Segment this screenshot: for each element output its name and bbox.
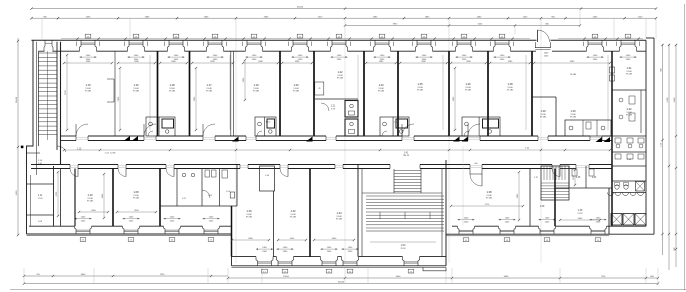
svg-text:13.08: 13.08 [293, 88, 299, 90]
stairwell west wall [357, 165, 359, 257]
svg-text:1.45: 1.45 [246, 209, 252, 213]
landing bump [423, 267, 446, 270]
small rooms above WC [568, 166, 570, 188]
svg-text:1.19: 1.19 [253, 83, 259, 87]
svg-text:1.41: 1.41 [404, 152, 409, 154]
svg-text:97.085: 97.085 [626, 115, 633, 117]
svg-text:97.085: 97.085 [133, 198, 140, 200]
svg-text:13.08: 13.08 [570, 114, 576, 116]
svg-text:97.085: 97.085 [293, 91, 300, 93]
window top x176 [168, 40, 170, 51]
window top x595 [587, 40, 589, 51]
stair door arc [57, 146, 66, 152]
in-room dim lines top row [64, 62, 112, 64]
secondary stair [541, 166, 569, 200]
svg-text:1.21: 1.21 [331, 106, 336, 108]
svg-text:1.30: 1.30 [570, 109, 576, 113]
svg-text:10410: 10410 [16, 96, 18, 103]
left dimension verticals [17, 38, 19, 235]
small pods near corridor top row [146, 117, 175, 136]
svg-text:44540: 44540 [297, 7, 304, 9]
svg-text:97.085: 97.085 [626, 74, 633, 76]
svg-text:97.085: 97.085 [253, 91, 260, 93]
window bottom-middle x285 [277, 257, 279, 266]
svg-text:49: 49 [319, 88, 321, 90]
svg-text:1.23: 1.23 [378, 83, 384, 87]
bottom wall middle section [232, 256, 257, 258]
window bottom-right x507 [499, 226, 501, 234]
niches on x612 wall [610, 67, 615, 73]
bottom wall left section [29, 225, 75, 227]
svg-text:13.08: 13.08 [246, 214, 252, 216]
svg-text:97.085: 97.085 [486, 198, 493, 200]
right column wall x612 [611, 51, 613, 226]
frame line bottom [10, 289, 686, 291]
svg-text:97.085: 97.085 [336, 219, 343, 221]
svg-text:97.085: 97.085 [85, 91, 92, 93]
svg-text:13.08: 13.08 [87, 198, 93, 200]
svg-text:97.085: 97.085 [465, 90, 472, 92]
tower window [44, 40, 45, 51]
svg-text:97.085: 97.085 [378, 91, 385, 93]
right column pods [612, 89, 646, 91]
window top x254 [246, 40, 248, 51]
svg-text:1.43: 1.43 [336, 211, 342, 215]
top row partition walls [157, 51, 159, 136]
svg-text:1.36: 1.36 [578, 209, 583, 212]
svg-text:13.08: 13.08 [336, 216, 342, 218]
svg-text:97.085: 97.085 [246, 217, 253, 219]
window top x382 [374, 40, 376, 51]
corridor door arcs [76, 124, 88, 136]
door recess room 1.38 [470, 169, 482, 175]
svg-text:1.50: 1.50 [401, 244, 406, 247]
window bottom-right x598 [590, 226, 592, 234]
svg-text:1.16: 1.16 [133, 83, 139, 87]
room 1.29 walls [532, 96, 556, 98]
top dimension line 2 [32, 17, 657, 19]
svg-text:97.085: 97.085 [337, 78, 344, 80]
right rooms partitions [529, 169, 531, 227]
bottom-left pods [160, 205, 237, 207]
top dimension line 1 [32, 8, 657, 10]
svg-text:1.22: 1.22 [337, 70, 343, 74]
pod above corridor right [565, 120, 611, 136]
window bottom-left x131 [123, 226, 125, 234]
vertical guide lines [41, 18, 43, 39]
svg-text:13.08: 13.08 [507, 87, 513, 89]
wide flight [362, 192, 442, 194]
svg-text:13.08: 13.08 [486, 195, 492, 197]
window bottom-right x547 [539, 226, 541, 234]
svg-text:1.12: 1.12 [77, 149, 82, 151]
svg-text:1.13 12.96: 1.13 12.96 [105, 153, 117, 155]
svg-text:13.08: 13.08 [378, 88, 384, 90]
window top x339 [331, 40, 333, 51]
thresholds top wall gaps [76, 136, 88, 138]
svg-text:1.28: 1.28 [507, 82, 513, 86]
window bottom-middle x264.5 [256, 257, 258, 266]
entrance door top [537, 30, 539, 42]
bottom corridor door arcs [70, 169, 78, 177]
svg-text:13.08: 13.08 [626, 71, 632, 73]
window top x215 [207, 40, 209, 51]
svg-text:13.08: 13.08 [133, 88, 139, 90]
svg-text:97.085: 97.085 [507, 90, 514, 92]
svg-text:1.42: 1.42 [290, 209, 296, 213]
svg-text:97.085: 97.085 [570, 117, 577, 119]
room 1.21 pod [315, 98, 358, 100]
window top x628 [620, 40, 622, 51]
bottom dimension line 1 [24, 275, 228, 277]
window bottom-left x172 [164, 226, 166, 234]
window top x502 [494, 40, 496, 51]
svg-text:97.085: 97.085 [290, 217, 297, 219]
stairwell east wall [441, 169, 443, 257]
right outer wall [645, 40, 647, 226]
svg-text:1.15: 1.15 [85, 83, 91, 87]
bottom wall right section [452, 225, 458, 227]
window bottom-middle x329 [321, 257, 323, 266]
svg-text:25.90: 25.90 [400, 248, 406, 250]
corridor bottom wall [31, 164, 70, 166]
window bottom-left x83 [75, 226, 77, 234]
bottom-left in-room dims [79, 211, 108, 213]
window bottom-left x211 [203, 226, 205, 234]
svg-text:13.08: 13.08 [169, 88, 175, 90]
window top x136 [128, 40, 130, 51]
svg-text:1.17: 1.17 [206, 83, 212, 87]
svg-text:97.085: 97.085 [133, 91, 140, 93]
bottom dimension line 2 [24, 283, 658, 285]
svg-text:13.08: 13.08 [337, 75, 343, 77]
thresholds bottom wall gaps [70, 165, 78, 167]
svg-text:1.31: 1.31 [626, 66, 632, 70]
svg-text:13.08: 13.08 [540, 114, 546, 116]
corner marker [21, 146, 24, 149]
svg-text:13.08: 13.08 [85, 88, 91, 90]
svg-text:13.08: 13.08 [133, 195, 139, 197]
svg-text:44540: 44540 [338, 282, 345, 284]
top wall inner face [39, 50, 45, 52]
left stair shaft [38, 51, 40, 146]
svg-text:13.08: 13.08 [206, 88, 212, 90]
annex walls [53, 166, 55, 226]
svg-text:97.085: 97.085 [169, 91, 176, 93]
window top x88 [80, 40, 82, 51]
window top x424 [416, 40, 418, 51]
svg-text:1.20: 1.20 [293, 83, 299, 87]
right dimension verticals [662, 44, 664, 255]
svg-text:1.11: 1.11 [38, 195, 43, 197]
svg-text:97.085: 97.085 [417, 90, 424, 92]
svg-text:1.10: 1.10 [87, 193, 93, 197]
svg-text:13.08: 13.08 [465, 87, 471, 89]
svg-text:1.34: 1.34 [592, 177, 597, 179]
svg-text:900: 900 [475, 163, 478, 165]
svg-text:97.085: 97.085 [87, 201, 94, 203]
alcove room 1.15 [107, 79, 114, 102]
svg-text:97.085: 97.085 [540, 117, 547, 119]
svg-text:13.08: 13.08 [417, 87, 423, 89]
window top x464 [456, 40, 458, 51]
WC block [555, 187, 612, 189]
svg-text:13.08: 13.08 [253, 88, 259, 90]
window bottom-middle x350 [342, 257, 344, 266]
svg-text:1.32: 1.32 [626, 107, 632, 111]
right column mid fixtures [619, 98, 623, 102]
svg-text:21.42: 21.42 [577, 213, 583, 215]
svg-text:5.90: 5.90 [38, 163, 42, 165]
left tower west wall [27, 40, 34, 234]
svg-text:97.085: 97.085 [206, 91, 213, 93]
bottom-left partitions [60, 169, 62, 227]
svg-text:1.39: 1.39 [540, 206, 545, 208]
svg-text:1.25: 1.25 [417, 82, 423, 86]
svg-text:1.18: 1.18 [169, 83, 175, 87]
corridor top wall [61, 135, 76, 137]
svg-text:186.50: 186.50 [403, 155, 410, 157]
top third dim row [345, 25, 580, 27]
dim row above wall [61, 38, 530, 40]
upper flight [393, 169, 395, 193]
window bottom-right x466 [458, 226, 460, 234]
corridor triangles [124, 136, 131, 141]
svg-text:10.480: 10.480 [570, 74, 577, 76]
svg-text:1.26: 1.26 [465, 82, 471, 86]
stairwell top walls [358, 164, 390, 166]
svg-text:17.05: 17.05 [37, 198, 43, 200]
duct room 1.44 [260, 166, 275, 191]
step wall x228 [231, 206, 233, 257]
corridor centre dim line [64, 149, 610, 151]
svg-text:1.08: 1.08 [133, 190, 139, 194]
window top x300 [292, 40, 294, 51]
bottom-middle partitions [273, 191, 275, 257]
top wall outer face [31, 39, 536, 41]
svg-text:13.08: 13.08 [290, 214, 296, 216]
svg-text:1.29: 1.29 [540, 109, 546, 113]
svg-text:1.38: 1.38 [486, 190, 492, 194]
svg-text:10550: 10550 [283, 276, 290, 278]
svg-text:1.35: 1.35 [576, 177, 581, 179]
window bottom-middle x411 [403, 257, 405, 266]
